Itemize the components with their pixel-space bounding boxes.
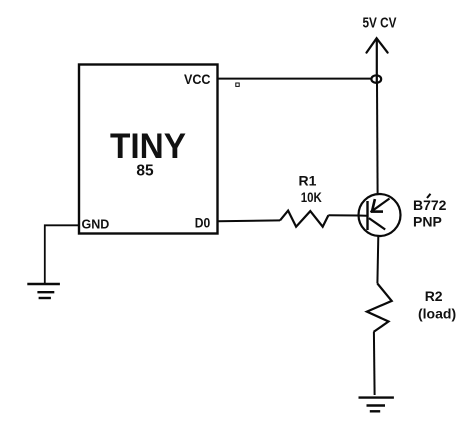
- wire GND pin to ground: [45, 225, 79, 283]
- svg-text:TINY: TINY: [110, 126, 186, 166]
- ground right: [359, 398, 394, 412]
- label B772 with accent: [413, 194, 447, 213]
- transistor Q1 B772: [359, 194, 401, 236]
- marker small square: [236, 83, 239, 86]
- svg-text:PNP: PNP: [413, 214, 442, 230]
- wire Q1 collector to R2: [376, 236, 379, 283]
- resistor R1: [280, 211, 328, 227]
- ground left: [27, 284, 60, 298]
- svg-text:(load): (load): [418, 305, 456, 321]
- wire VCC pin to node: [218, 78, 373, 80]
- svg-text:GND: GND: [82, 218, 110, 232]
- resistor R2: [367, 284, 392, 332]
- svg-text:85: 85: [136, 163, 154, 180]
- wire node to Q1 emitter: [376, 83, 379, 194]
- power arrow 5V: [367, 38, 388, 83]
- svg-text:B772: B772: [413, 197, 447, 213]
- svg-text:R1: R1: [299, 173, 317, 189]
- svg-text:R2: R2: [425, 288, 443, 304]
- svg-text:D0: D0: [195, 215, 211, 231]
- wire R2 to ground: [373, 332, 376, 395]
- svg-text:5V CV: 5V CV: [363, 16, 397, 32]
- wire D0 to R1: [218, 219, 281, 222]
- wire R1 to Q1 base: [328, 214, 358, 216]
- svg-text:VCC: VCC: [184, 71, 211, 87]
- IC U1 TINY85 body: [79, 65, 218, 234]
- svg-text:10K: 10K: [301, 189, 322, 205]
- junction node: [371, 75, 381, 83]
